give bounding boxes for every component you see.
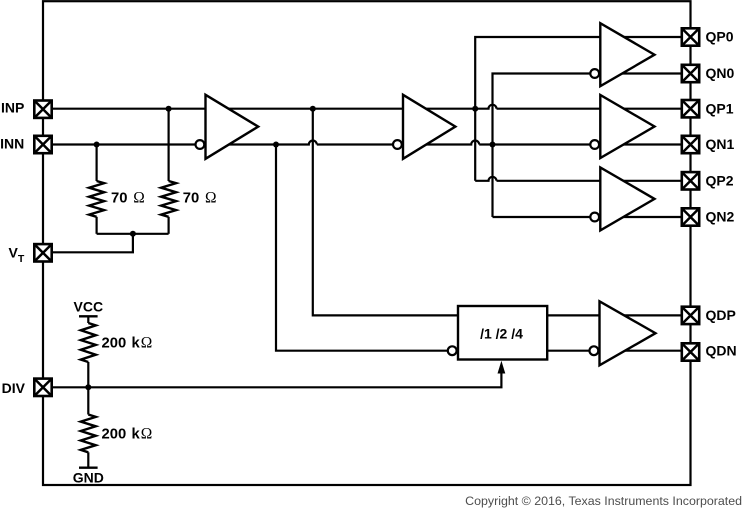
ground GND terminal bar [79,467,98,469]
node dot DIV divider tap [85,384,91,390]
node dot VT rail [130,231,136,237]
wire N branch to divider [276,145,458,351]
pin QP1 [682,100,699,117]
node dot INN/R1 [94,142,100,148]
svg-text:QP2: QP2 [706,173,734,189]
svg-text:200kΩ: 200kΩ [102,335,153,352]
arrow into divider bottom [498,361,506,374]
pin VT [34,244,51,261]
svg-text:VT: VT [9,245,25,265]
resistor R2 70ohm [161,181,176,217]
pin DIV [34,379,51,396]
wire QN2 line [493,216,683,218]
wire DIV rail [52,371,501,387]
node dot N branch [273,142,279,148]
svg-text:200kΩ: 200kΩ [102,425,153,442]
svg-text:QN2: QN2 [706,209,735,225]
svg-text:QN1: QN1 [706,136,735,152]
bubble divider inverting input [448,346,457,355]
wire INP rail (y=108.7) with hop at x=492.5 [52,105,682,109]
power VCC terminal bar [79,315,98,317]
bubble U3 inverting input [590,69,599,78]
pin QN1 [682,136,699,153]
resistor R4 200kohm [81,415,96,453]
svg-text:QDP: QDP [706,307,736,323]
wire QP2 line with hop at x=492.5 [475,177,682,181]
bubble U6 inverting input [590,346,599,355]
pin INP [34,101,51,118]
wire INN rail (y=144.5) with hops at x=312.8 and x=475.2 [52,141,682,145]
svg-text:INP: INP [1,99,24,115]
bubble U2 inverting input [393,140,402,149]
svg-text:QDN: QDN [706,342,737,358]
wire QDN line [547,350,682,352]
node dot N fanout [490,142,496,148]
svg-text:70Ω: 70Ω [183,190,217,207]
wire VCC lead [87,316,89,323]
pin QN0 [682,65,699,82]
svg-text:QN0: QN0 [706,65,735,81]
buffer U2 second stage [403,95,455,159]
svg-text:QP1: QP1 [706,100,734,116]
bubble U1 inverting input [196,140,205,149]
buffer U5 output 2 [600,167,654,230]
buffer U4 output 1 [600,95,654,158]
svg-text:INN: INN [0,136,24,152]
bubble U4 inverting input [590,140,599,149]
wire R4 bottom lead [87,452,89,467]
pin INN [34,136,51,153]
wire R3 bottom lead to DIV rail [87,362,89,415]
node dot P fanout [472,106,478,112]
wire R1 bottom lead [95,217,97,234]
pin QDP [682,307,699,324]
svg-text:70Ω: 70Ω [111,190,145,207]
svg-text:GND: GND [73,470,104,486]
wire INP to R2 drop [168,109,170,181]
wire R2 bottom lead [168,217,170,234]
svg-text:VCC: VCC [74,299,104,315]
node dot P branch [310,106,316,112]
wire INN to R1 drop [95,145,97,182]
wire QN0 line [493,74,683,218]
resistor R1 70ohm [89,181,104,217]
svg-text:Copyright © 2016, Texas Instru: Copyright © 2016, Texas Instruments Inco… [465,494,742,508]
svg-text:DIV: DIV [2,380,26,396]
pin QP0 [682,28,699,45]
divider block /1 /2 /4 [458,306,547,360]
wire VT connection [52,234,133,253]
pin QN2 [682,208,699,225]
node dot INP/R2 [166,106,172,112]
svg-text:QP0: QP0 [706,29,734,45]
pin QP2 [682,172,699,189]
wire termination rail [97,233,169,235]
wire QP0 line [475,37,682,181]
buffer U1 input stage [206,95,259,159]
pin QDN [682,343,699,360]
bubble U5 inverting input [590,213,599,222]
resistor R3 200kohm [81,323,96,362]
svg-text:/1 /2 /4: /1 /2 /4 [480,326,523,342]
wire QDP line [547,314,682,316]
buffer U6 output divider [600,301,656,365]
wire P branch to divider [313,109,458,316]
buffer U3 output 0 [600,23,654,86]
